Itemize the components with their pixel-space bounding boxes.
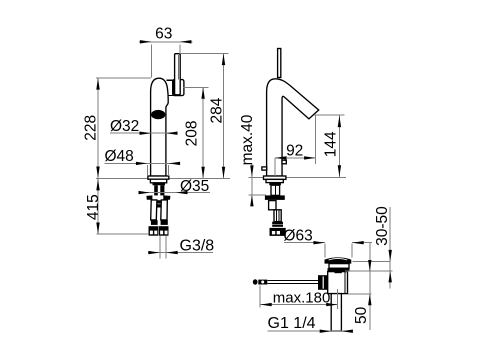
svg-text:228: 228	[83, 115, 100, 141]
svg-text:92: 92	[286, 142, 303, 159]
svg-text:Ø32: Ø32	[110, 118, 139, 135]
svg-text:G3/8: G3/8	[180, 237, 215, 254]
svg-text:63: 63	[155, 26, 172, 43]
svg-text:Ø48: Ø48	[105, 148, 134, 165]
svg-text:50: 50	[353, 306, 370, 324]
svg-text:G1 1/4: G1 1/4	[268, 315, 316, 332]
svg-text:Ø63: Ø63	[283, 227, 312, 244]
svg-text:415: 415	[85, 194, 102, 220]
svg-text:144: 144	[322, 131, 339, 157]
svg-text:max.40: max.40	[239, 114, 256, 165]
svg-text:208: 208	[183, 120, 200, 146]
svg-text:284: 284	[209, 97, 226, 123]
svg-text:30-50: 30-50	[374, 206, 391, 246]
svg-text:max.180: max.180	[273, 290, 331, 307]
